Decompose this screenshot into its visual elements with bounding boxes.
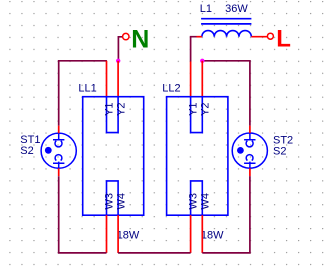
- starter ST2 top electrode: [244, 133, 255, 147]
- svg-text:W3: W3: [104, 193, 116, 210]
- wire inductor to LL2 Y1: [191, 37, 197, 62]
- lamp LL2 top notch: [191, 97, 203, 133]
- inductor L1 core lines: [201, 19, 251, 24]
- wire LL2 W4 to ST2 bottom: [202, 176, 250, 253]
- svg-text:18W: 18W: [117, 230, 140, 242]
- svg-text:N: N: [131, 25, 149, 53]
- svg-text:L1: L1: [200, 3, 212, 15]
- junction at LL1 Y2: [116, 59, 120, 63]
- terminal L circle: [267, 33, 273, 39]
- starter ST1 body: [41, 133, 76, 168]
- svg-text:S2: S2: [20, 145, 33, 157]
- lamp LL1 body: [83, 97, 144, 216]
- wire LL1 W4 to LL2 W3: [118, 252, 191, 254]
- starter ST1 dot: [45, 147, 52, 154]
- svg-text:W4: W4: [115, 193, 127, 210]
- terminal N circle: [123, 33, 129, 39]
- svg-text:W3: W3: [188, 193, 200, 210]
- pin LL1 W4 lead: [117, 215, 119, 253]
- pin LL1 W3 lead: [106, 215, 108, 253]
- wire junction LL2 Y2 to ST2 top: [202, 61, 250, 126]
- svg-text:Y2: Y2: [200, 102, 212, 115]
- pin LL2 W4 lead: [201, 215, 203, 253]
- svg-text:Y2: Y2: [115, 102, 127, 115]
- wire N stub: [118, 37, 122, 61]
- svg-text:L: L: [276, 25, 291, 52]
- lamp LL2 body: [167, 97, 228, 216]
- starter ST1 top electrode: [53, 133, 64, 147]
- pin ST2 top: [249, 126, 251, 133]
- wire ST1 bottom to LL1 W3: [59, 176, 107, 253]
- svg-text:Y1: Y1: [188, 102, 200, 115]
- pin LL2 Y2 lead: [201, 61, 203, 98]
- starter ST1 bottom electrode: [53, 155, 64, 169]
- inductor right pin: [251, 36, 267, 38]
- inductor left pin: [197, 36, 202, 38]
- svg-text:LL2: LL2: [162, 82, 180, 94]
- pin LL1 Y2 lead: [117, 61, 119, 98]
- starter ST2 body: [232, 133, 267, 168]
- pin LL2 W3 lead: [190, 215, 192, 253]
- lamp LL2 bottom notch: [191, 181, 203, 215]
- starter ST2 bottom electrode: [244, 155, 255, 169]
- pin LL2 Y1 lead: [190, 62, 192, 98]
- lamp LL1 top notch: [107, 97, 119, 133]
- svg-text:S2: S2: [273, 145, 286, 157]
- inductor L1 coil: [202, 31, 251, 37]
- svg-text:Y1: Y1: [104, 102, 116, 115]
- junction at LL2 Y2: [200, 59, 204, 63]
- pin ST2 bottom: [249, 168, 251, 176]
- lamp LL1 bottom notch: [107, 181, 119, 215]
- svg-text:W4: W4: [200, 193, 212, 210]
- wire top-left bus: [59, 61, 107, 126]
- pin LL1 Y1 lead: [106, 61, 108, 98]
- svg-text:36W: 36W: [225, 3, 248, 15]
- svg-text:18W: 18W: [201, 230, 224, 242]
- svg-text:ST1: ST1: [20, 134, 40, 146]
- pin ST1 top: [58, 126, 60, 134]
- pin ST1 bottom: [58, 168, 60, 176]
- svg-text:LL1: LL1: [78, 82, 96, 94]
- starter ST2 dot: [237, 147, 244, 154]
